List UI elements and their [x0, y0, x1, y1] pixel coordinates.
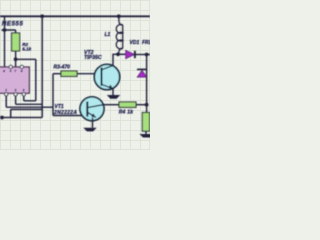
ground VT1 emitter [83, 128, 96, 132]
node R4 rail [145, 103, 149, 107]
transistor VT1 2N2222A [80, 97, 104, 121]
wire IC mid pin branch [16, 93, 43, 104]
svg-text:4: 4 [9, 69, 12, 73]
resistor R2 [12, 33, 20, 51]
wire VT1 emitter down [92, 118, 94, 128]
svg-text:2N2222A: 2N2222A [53, 110, 77, 116]
node gnd bus [0, 116, 4, 120]
wire R3 left lead [53, 73, 61, 75]
zener VD2 [137, 68, 147, 70]
transistor VT2 TIP35C [94, 64, 119, 89]
node rail tap [40, 14, 44, 18]
node R2 tap [3, 28, 7, 32]
svg-text:R3-470: R3-470 [54, 65, 71, 71]
wire VCC drop to IC pin (left) [4, 16, 6, 67]
wire VCC drop right of IC [41, 16, 43, 117]
svg-text:5.1k: 5.1k [22, 46, 31, 51]
wire R3 left drop [52, 74, 54, 108]
inductor L1 [116, 16, 122, 54]
wire VT1 collector to R4 [103, 104, 119, 106]
wire VCC top rail [0, 15, 150, 17]
wire VT2 collector up [113, 54, 118, 65]
wire output rail down [146, 55, 148, 113]
ground R5 [140, 134, 151, 138]
IC pin circles bottom [5, 93, 26, 96]
wire gnd bus bottom [0, 117, 42, 119]
wire R3 to VT2 base [77, 73, 102, 75]
diode VD1 [126, 50, 135, 58]
node output [145, 53, 149, 57]
resistor R4 [119, 102, 136, 107]
svg-text:R4 1k: R4 1k [119, 110, 134, 116]
wire VT2 emitter down [112, 89, 114, 95]
node R2 bottom junction [14, 57, 18, 61]
svg-text:L1: L1 [105, 32, 111, 38]
resistor R3 [61, 71, 77, 76]
wire R4 to rail [136, 104, 147, 106]
wire R5 to ground [145, 131, 147, 134]
wire gnd loop upper [11, 109, 43, 117]
IC pin circles top [9, 65, 23, 68]
node L1 bottom [116, 52, 120, 56]
wire node to IC pin (right then down) [16, 59, 36, 101]
wire R2 branch [2, 30, 16, 33]
svg-text:VD1 FR3: VD1 FR3 [130, 40, 151, 46]
resistor R5 vertical [142, 113, 149, 132]
wire R2 bottom to node [15, 51, 17, 67]
wire IC out pin to VT1 base [6, 93, 53, 115]
IC pin numbers [3, 69, 25, 92]
node L1 top [117, 14, 121, 18]
wire diode to out node [135, 54, 150, 56]
svg-text:TIP35C: TIP35C [84, 55, 102, 61]
svg-text:2: 2 [22, 88, 25, 92]
ground VT2 emitter [107, 95, 120, 99]
IC U1 NE555 body [0, 67, 29, 93]
wire VT1 base [53, 115, 87, 117]
svg-text:NE555: NE555 [2, 21, 24, 28]
wire L1 node to diode [118, 53, 126, 55]
